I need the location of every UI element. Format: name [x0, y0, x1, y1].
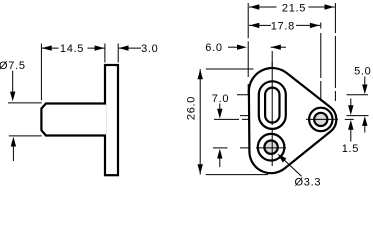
- wire: horizontal centerline right hole (7.0/1.5 ref): [214, 118, 339, 120]
- wire: horizontal centerline right hole over boss: [306, 118, 335, 120]
- dimension 3.0: [119, 43, 159, 55]
- plate outline (front view): [249, 68, 336, 173]
- wire: 26.0 bottom extension line: [206, 174, 268, 176]
- wire: dim 14.5 extension line right: [104, 44, 106, 63]
- leader Ø3.3: [276, 152, 321, 189]
- wire: dim 3.0 extension line: [117, 44, 119, 63]
- dimension 14.5: [41, 43, 105, 55]
- svg-text:14.5: 14.5: [60, 43, 84, 55]
- wire: horizontal centerline bottom hole over boss: [256, 147, 286, 149]
- svg-text:7.0: 7.0: [212, 93, 229, 105]
- svg-text:6.0: 6.0: [205, 42, 222, 54]
- dimension 21.5: [249, 3, 335, 15]
- svg-text:Ø7.5: Ø7.5: [0, 60, 26, 72]
- arrow Ø7.5 down: [10, 71, 15, 102]
- wire: vertical centerline right hole (17.8 extension): [320, 23, 322, 29]
- svg-text:Ø3.3: Ø3.3: [295, 177, 322, 188]
- arrow Ø7.5 up: [11, 137, 16, 161]
- boss around slot: [259, 81, 286, 129]
- dimension 1.5: [342, 99, 359, 156]
- dimension 6.0: [205, 42, 286, 54]
- wire: Ø7.5 bottom extension line: [9, 135, 42, 137]
- wire: horizontal line slot bottom arc center (5.0/1.5 ref): [240, 115, 332, 117]
- wire: horizontal line slot top arc center (5.0 upper ref): [237, 94, 312, 96]
- dimension 5.0: [354, 66, 371, 133]
- wire: vertical extension line plate left edge (for 21.5/17.8/6.0): [247, 3, 249, 94]
- dimension 26.0: [185, 69, 203, 175]
- wire: horizontal centerline bottom hole (7.0 lower ref): [213, 147, 228, 149]
- svg-text:21.5: 21.5: [282, 3, 306, 15]
- svg-text:17.8: 17.8: [271, 21, 295, 33]
- dimension 17.8: [249, 21, 320, 33]
- wire: Ø7.5 top extension line: [8, 102, 42, 104]
- svg-text:26.0: 26.0: [185, 96, 197, 120]
- slot hole: [265, 88, 279, 123]
- wire: dim 14.5 extension line left: [40, 44, 42, 101]
- wire: 26.0 top extension line: [206, 68, 254, 70]
- dimension 7.0: [212, 93, 229, 167]
- boss around bottom hole: [258, 134, 285, 161]
- right hole: [314, 113, 327, 126]
- boss around right hole: [309, 108, 332, 131]
- bottom hole Ø3.3: [264, 141, 277, 154]
- wire: slot vertical centerline over plate: [271, 62, 273, 166]
- svg-text:1.5: 1.5: [342, 143, 359, 155]
- pin (side view) with chamfered end: [41, 104, 106, 136]
- svg-text:3.0: 3.0: [141, 43, 158, 55]
- wire: vertical centerline slot / bottom hole: [271, 51, 273, 166]
- svg-text:5.0: 5.0: [354, 66, 371, 78]
- wire: vertical extension line plate right edge (for 21.5): [334, 3, 336, 101]
- plate (side view): [105, 65, 118, 175]
